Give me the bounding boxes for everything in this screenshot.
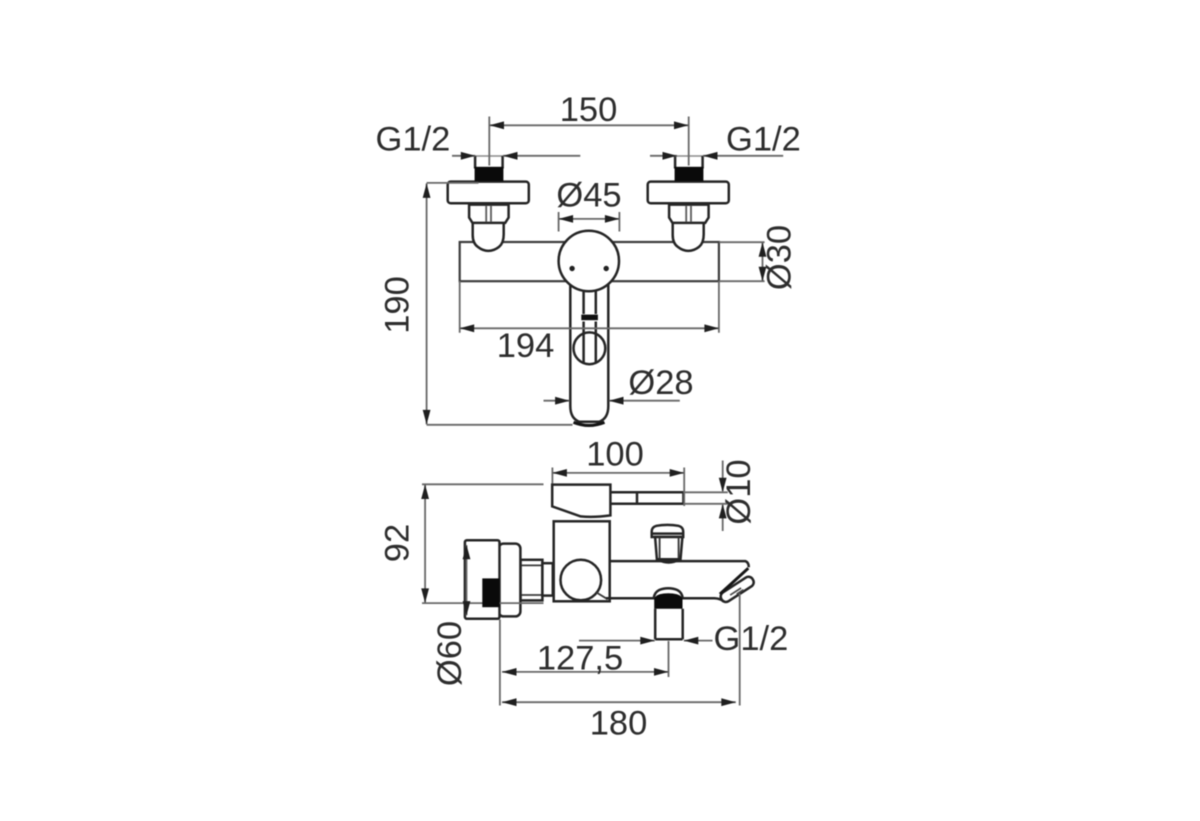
knob body inner lines xyxy=(660,538,679,559)
screw dots xyxy=(569,266,574,271)
mixer body cylinder xyxy=(554,521,610,601)
svg-text:Ø28: Ø28 xyxy=(628,364,693,402)
svg-text:Ø10: Ø10 xyxy=(720,459,758,524)
handle stem collar (black) xyxy=(581,315,598,321)
right union seal (black) xyxy=(675,167,704,181)
spout top line xyxy=(610,561,749,567)
dimension 100 xyxy=(552,468,684,507)
dimension 180 xyxy=(502,594,740,706)
svg-text:92: 92 xyxy=(379,524,417,562)
svg-text:190: 190 xyxy=(379,276,417,334)
dimension Ø10 xyxy=(683,461,727,532)
svg-text:127,5: 127,5 xyxy=(537,640,623,678)
wall seal (black) xyxy=(482,578,499,607)
aerator at spout tip xyxy=(719,575,756,604)
step ring xyxy=(542,563,552,595)
right union connector xyxy=(648,156,729,251)
lever rod xyxy=(610,491,683,505)
svg-text:G1/2: G1/2 xyxy=(714,620,789,658)
dimension 194 xyxy=(460,281,719,333)
dimension 190 xyxy=(427,183,573,425)
svg-text:Ø30: Ø30 xyxy=(761,225,799,290)
svg-text:100: 100 xyxy=(586,436,644,474)
boss-to-spout transition line xyxy=(597,593,608,600)
dimension G1/2 right xyxy=(650,155,783,157)
wall flange front xyxy=(465,540,500,619)
side hex nut xyxy=(521,560,543,601)
left union connector xyxy=(448,156,529,251)
lever head xyxy=(552,485,610,517)
left union seal (black) xyxy=(475,167,504,181)
svg-text:194: 194 xyxy=(497,327,555,365)
svg-text:150: 150 xyxy=(560,91,618,129)
dimension Ø30 xyxy=(719,242,765,281)
dimension G1/2 left xyxy=(452,155,580,157)
shower outlet tube xyxy=(655,609,683,640)
knob base ellipse xyxy=(657,559,680,562)
spout bottom line xyxy=(606,598,723,601)
svg-text:G1/2: G1/2 xyxy=(376,121,451,159)
svg-text:Ø60: Ø60 xyxy=(431,621,469,686)
spout tube (front, rounded bottom) xyxy=(570,283,608,422)
outlet dome shoulder xyxy=(654,588,683,598)
mixer body bar xyxy=(460,242,719,281)
dimension G1/2 bottom xyxy=(579,640,713,642)
cartridge circle Ø45 xyxy=(559,231,619,291)
stem lines through ball xyxy=(584,322,596,363)
diverter knob cap xyxy=(652,525,684,537)
dimension Ø28 xyxy=(544,400,680,402)
outlet seal ring (black) xyxy=(654,593,682,609)
spout end face xyxy=(720,568,748,594)
dimension 150 xyxy=(489,117,688,166)
dimension 92 xyxy=(422,484,544,603)
body round boss xyxy=(561,560,602,601)
diverter knob body xyxy=(655,537,682,559)
wall plane extension line xyxy=(499,620,501,706)
side nut facet lines xyxy=(521,565,543,595)
spout end dark arc xyxy=(574,422,605,425)
svg-text:Ø45: Ø45 xyxy=(556,177,621,215)
svg-text:G1/2: G1/2 xyxy=(726,121,801,159)
dimension 127,5 xyxy=(502,641,669,677)
dimension Ø60 xyxy=(466,545,468,615)
dimension Ø45 xyxy=(559,212,620,232)
handle ball (front) xyxy=(574,332,606,364)
wall flange side xyxy=(499,544,521,617)
svg-text:180: 180 xyxy=(590,705,648,743)
handle stem (front) xyxy=(584,290,596,314)
knob cap rim line xyxy=(652,532,683,535)
